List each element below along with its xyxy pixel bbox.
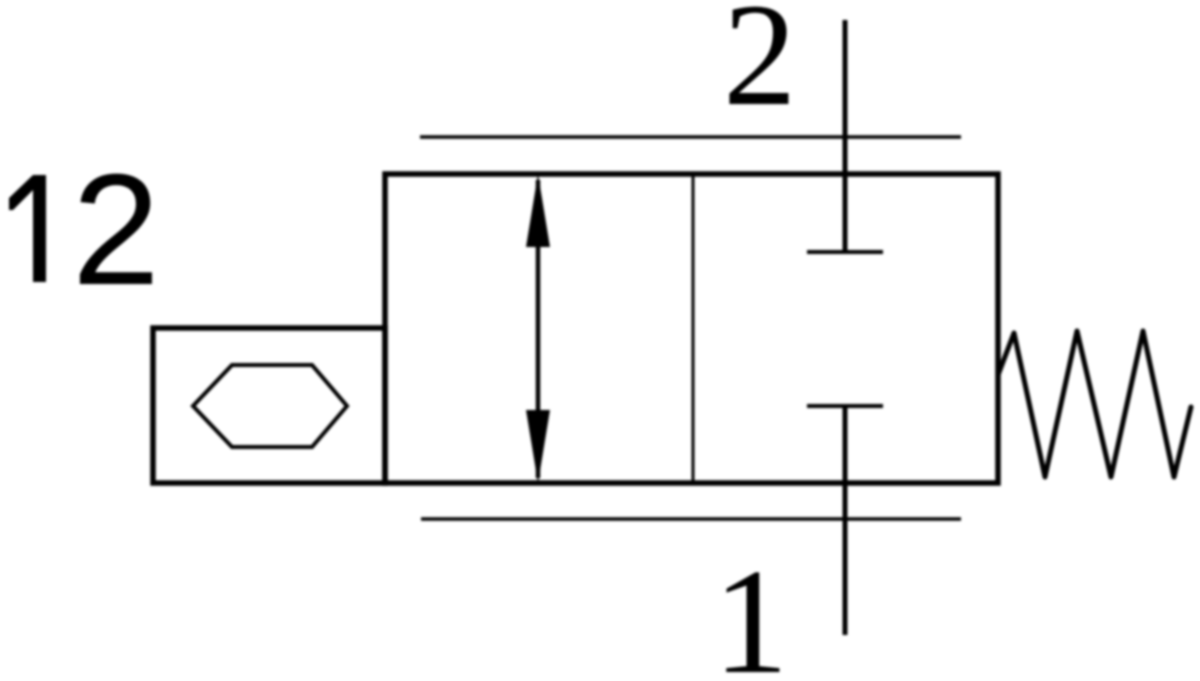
flow arrow shaft xyxy=(536,180,541,478)
solenoid box xyxy=(153,328,385,483)
blocked port 2 bar xyxy=(807,250,883,254)
port line 1 (supply port) xyxy=(421,517,961,520)
svg-text:2: 2 xyxy=(72,142,160,318)
blocked port 1 bar xyxy=(807,404,883,408)
flow arrow head top xyxy=(526,174,550,247)
port line 2 (working port) xyxy=(420,135,961,138)
blocked port 1 stem xyxy=(843,406,848,635)
return spring xyxy=(998,331,1191,477)
valve body outline xyxy=(385,174,998,483)
svg-text:1: 1 xyxy=(713,537,789,681)
flow arrow head bottom xyxy=(526,410,550,483)
solenoid hexagon symbol xyxy=(193,365,347,447)
blocked port 2 stem xyxy=(843,20,848,252)
pilot port label 12 : digit 1 (drawn) xyxy=(9,175,46,282)
svg-text:2: 2 xyxy=(723,0,797,136)
cell divider xyxy=(692,174,695,483)
